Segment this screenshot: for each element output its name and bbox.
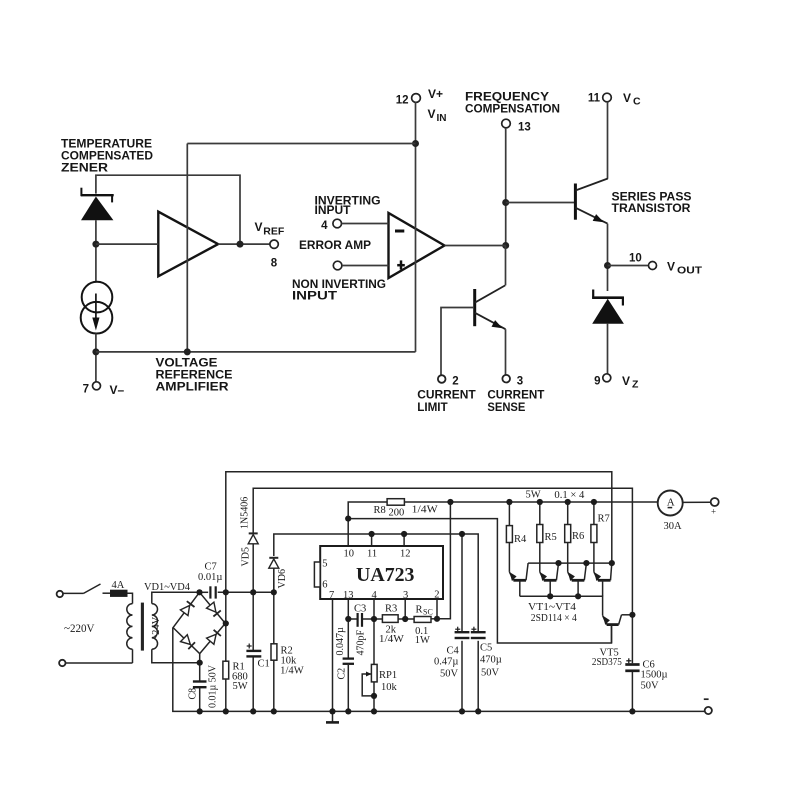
ammeter PA 30A (658, 491, 683, 533)
svg-text:30A: 30A (664, 521, 683, 532)
current source I1 (81, 282, 113, 334)
svg-text:4: 4 (372, 590, 378, 601)
wire VC down to collector (607, 102, 609, 179)
terminal pin 10 VOUT (608, 253, 703, 277)
wire RP1 bottom (373, 682, 375, 712)
resistor Rsc 0.1 1W (414, 605, 433, 646)
resistor R6 (565, 525, 585, 543)
terminal output minus (704, 699, 712, 714)
wire R5 top stub (539, 502, 541, 525)
diode VD6 (269, 558, 279, 593)
resistor R4 (506, 526, 527, 545)
wire C6 bottom (631, 672, 633, 711)
wire C3 to pin 4 node (363, 618, 382, 620)
svg-text:VT1~VT4: VT1~VT4 (528, 602, 577, 613)
svg-text:+: + (711, 507, 716, 517)
wire emitter current limit to pin 3 (505, 329, 507, 375)
wire R5 to VT2 emitter (539, 543, 541, 572)
resistor R5 (537, 525, 557, 544)
node V- rail left (92, 348, 99, 355)
svg-text:VD5: VD5 (241, 547, 252, 566)
resistor R8 200 (374, 499, 438, 519)
wire emitter down to VOUT node (607, 224, 609, 291)
wire pin 11 stub (371, 534, 373, 546)
wire C1 vertical top (252, 592, 254, 650)
svg-text:SC: SC (423, 608, 433, 617)
svg-text:INPUT: INPUT (292, 289, 338, 303)
wire C2 vertical (347, 619, 349, 658)
wire error amp output (445, 245, 506, 247)
node ground rail C8 (197, 708, 203, 714)
wire vertical through amplifier (186, 144, 188, 352)
core (141, 603, 144, 651)
wire base rail VT1-VT4 (520, 596, 603, 615)
node raw plus VD6 (271, 589, 277, 595)
terminal pin 4 inverting input (321, 219, 388, 232)
svg-text:C7: C7 (205, 562, 217, 573)
resistor R1 680 5W (223, 661, 248, 692)
wire VD5 rail2 (253, 488, 632, 615)
transistor VT3 (568, 563, 587, 596)
node ground rail R2 (271, 708, 277, 714)
node rail533 pin12 (401, 531, 407, 537)
svg-text:AMPLIFIER: AMPLIFIER (156, 380, 229, 394)
svg-text:C3: C3 (354, 603, 366, 614)
bridge diode bottom-left (181, 635, 196, 649)
node ground rail C5 (475, 708, 481, 714)
switch S1 blade (84, 584, 101, 593)
wire secondary top lead (152, 592, 200, 603)
label FREQUENCY COMPENSATION (465, 90, 560, 116)
svg-text:0.01µ: 0.01µ (198, 572, 222, 583)
node ground rail C4 (459, 708, 465, 714)
capacitor C2 0.047u (343, 659, 354, 664)
svg-text:VD6: VD6 (277, 569, 288, 588)
wire pin 2 stub (436, 599, 438, 619)
svg-text:2SD114 × 4: 2SD114 × 4 (531, 613, 578, 624)
node ground rail C1 (250, 708, 256, 714)
wire bridge plus vertical through R1 (225, 592, 227, 661)
node VREF (237, 241, 244, 248)
resistor R2 10k (271, 644, 304, 677)
svg-text:R: R (416, 605, 423, 616)
capacitor C1 electrolytic (246, 644, 269, 670)
svg-text:470pF: 470pF (356, 630, 367, 656)
svg-text:10: 10 (344, 548, 355, 559)
node bridge right vertex (223, 620, 229, 626)
wire current source to V- rail (95, 334, 97, 383)
wire pin 10 line (348, 519, 611, 643)
svg-text:SENSE: SENSE (487, 400, 525, 414)
resistor R3 2k (379, 604, 404, 646)
node error amp output (502, 242, 509, 249)
svg-text:50V: 50V (641, 681, 660, 692)
zener diode VZ (592, 290, 624, 324)
svg-text:50V: 50V (481, 668, 500, 679)
svg-text:3: 3 (517, 375, 523, 387)
svg-text:12: 12 (396, 95, 409, 107)
bridge diode top-left (180, 601, 194, 615)
error amp U2 triangle (389, 213, 445, 278)
terminal pin 8 VREF (255, 220, 285, 270)
wire zener VZ to pin 9 (607, 324, 609, 375)
svg-text:9: 9 (594, 376, 600, 388)
voltage reference amplifier U1 triangle (158, 212, 218, 277)
wire C4 bottom (461, 641, 463, 712)
wire R6 to VT3 emitter (567, 543, 569, 572)
svg-text:RP1: RP1 (379, 670, 397, 681)
node R8 pin10 (345, 516, 351, 522)
svg-text:V: V (255, 220, 263, 234)
svg-text:C4: C4 (447, 646, 460, 657)
label INVERTING INPUT (315, 194, 381, 218)
svg-text:V+: V+ (428, 87, 443, 101)
node VT5 collector rail2 (629, 612, 635, 618)
wire pin 7 ground (332, 599, 334, 711)
wire R2 bottom (273, 660, 275, 711)
svg-text:A: A (667, 496, 675, 508)
svg-text:IN: IN (437, 113, 447, 124)
wire VD6 to IC supply rail (273, 568, 275, 593)
wire pin 13 stub (347, 599, 349, 619)
svg-text:R3: R3 (385, 604, 397, 615)
svg-text:INPUT: INPUT (315, 203, 352, 217)
wire C8 bottom (199, 688, 201, 711)
terminal non-inverting input (333, 261, 388, 270)
wire rail3 output rail right of R8 (405, 501, 658, 503)
junction dots bottom circuit (196, 499, 635, 715)
label CURRENT SENSE (487, 388, 545, 415)
wire fuse to transformer (127, 593, 133, 603)
wire zener to current source (95, 220, 97, 282)
svg-text:1/4W: 1/4W (379, 634, 404, 645)
wire pin 13 to C3 (348, 618, 356, 620)
node rail3 R7 (591, 499, 597, 505)
node pin13 C3 (345, 616, 351, 622)
node ground rail C2 (345, 708, 351, 714)
wire R7 to VT4 emitter (593, 543, 595, 572)
wire C5 bottom (477, 641, 479, 712)
svg-text:13: 13 (518, 122, 531, 134)
svg-text:5: 5 (322, 559, 327, 570)
wire R1 bottom (225, 679, 227, 711)
terminal pin 3 current sense (502, 375, 523, 387)
svg-text:R8: R8 (374, 505, 386, 516)
node raw plus C1 (250, 589, 256, 595)
node freq comp to base (502, 199, 509, 206)
wire AC line top with switch (63, 592, 84, 594)
capacitor C6 1500u (625, 658, 667, 691)
svg-text:TRANSISTOR: TRANSISTOR (612, 201, 691, 215)
transistor VT1 (509, 563, 528, 596)
node base rail VT3 (575, 593, 581, 599)
capacitor C7 (198, 562, 222, 599)
svg-text:0.01µ 50V: 0.01µ 50V (208, 664, 219, 708)
error amp minus sign (395, 230, 404, 233)
svg-text:V: V (623, 91, 631, 105)
svg-text:REF: REF (263, 226, 285, 238)
svg-text:C5: C5 (480, 643, 492, 654)
svg-text:COMPENSATION: COMPENSATION (465, 102, 560, 116)
node bridge top (196, 589, 202, 595)
diode VD5 1N5406 (248, 533, 258, 592)
svg-text:2: 2 (452, 375, 458, 387)
wire R6 top stub (567, 502, 569, 525)
wire R3 to pin 3 node (398, 618, 415, 620)
svg-text:5W: 5W (526, 490, 541, 501)
node secondary to bridge bottom (197, 660, 203, 666)
zener diode temperature compensated (81, 188, 114, 221)
wire V+ horizontal (187, 143, 415, 145)
wire bottom ground rail (173, 628, 705, 712)
wire V+ vertical pin12 down (415, 102, 417, 352)
node ground rail pin7 (329, 708, 335, 714)
ground symbol (326, 711, 339, 722)
secondary winding (152, 604, 158, 650)
bridge diode bottom-right (207, 630, 221, 645)
svg-text:4: 4 (321, 220, 328, 232)
svg-text:1W: 1W (415, 635, 430, 646)
svg-text:0.1 × 4: 0.1 × 4 (554, 490, 585, 501)
wire V- bottom rail (96, 351, 416, 353)
terminal pin 12 V+ (396, 87, 447, 124)
transistor VT2 (540, 563, 559, 596)
label VOLTAGE REFERENCE AMPLIFIER (156, 356, 233, 394)
svg-text:10k: 10k (381, 682, 398, 693)
svg-text:C: C (633, 96, 641, 108)
wire R4 top stub (508, 502, 510, 526)
wire RP1 top (373, 619, 375, 664)
wire C6 top (631, 615, 633, 663)
transistor VT4 (594, 563, 612, 596)
transistor Q2 current limit (475, 246, 506, 330)
label TEMPERATURE COMPENSATED ZENER (61, 137, 153, 175)
primary winding (127, 604, 133, 650)
svg-text:R4: R4 (514, 534, 527, 545)
terminal pin 2 current limit (438, 375, 459, 387)
bridge diode top-right (207, 602, 221, 616)
node rail533 C4 (459, 531, 465, 537)
node pin3 R3 Rsc (402, 616, 408, 622)
svg-text:~220V: ~220V (64, 623, 95, 635)
node rail533 pin11 (369, 531, 375, 537)
resistor R7 (591, 514, 610, 543)
svg-text:200: 200 (389, 508, 405, 519)
node V- rail mid (184, 348, 191, 355)
node RP1 wiper (371, 693, 377, 699)
wire pin13 down (505, 128, 507, 246)
wire collector rail VT1-VT4 (528, 562, 612, 564)
svg-text:V: V (667, 260, 675, 274)
node rail3 pin2 riser (447, 499, 453, 505)
node rail3 R6 (565, 499, 571, 505)
wire base of series pass (506, 202, 574, 204)
svg-text:4A: 4A (112, 580, 125, 591)
svg-text:2: 2 (434, 589, 439, 600)
svg-text:1/4W: 1/4W (412, 505, 438, 516)
capacitor C8 (193, 682, 207, 688)
svg-text:1500µ: 1500µ (641, 670, 668, 681)
wire transformer primary bottom lead (132, 649, 134, 663)
svg-text:0.47µ: 0.47µ (434, 657, 458, 668)
svg-text:0.047µ: 0.047µ (335, 627, 346, 656)
terminal pin 9 VZ (594, 374, 639, 391)
terminal pin 13 frequency compensation (502, 119, 531, 133)
svg-text:7: 7 (83, 384, 89, 396)
wire rail3 output rail left of R8 (348, 502, 387, 519)
node ground rail RP1 (371, 708, 377, 714)
svg-text:~24V: ~24V (151, 616, 162, 640)
node collector rail VT3 (583, 560, 589, 566)
svg-text:LIMIT: LIMIT (417, 400, 448, 414)
svg-text:V–: V– (110, 383, 125, 397)
wire R4 to VT1 emitter (508, 543, 510, 572)
node rail3 R4 (506, 499, 512, 505)
svg-text:2SD375: 2SD375 (592, 657, 622, 668)
svg-text:Z: Z (632, 379, 639, 391)
svg-text:5W: 5W (233, 681, 248, 692)
wire pin 10 stub (347, 519, 349, 546)
svg-text:V: V (428, 107, 436, 121)
wire secondary bottom lead (152, 649, 200, 662)
svg-text:13: 13 (343, 590, 354, 601)
wire C2 bottom (347, 665, 349, 711)
svg-text:OUT: OUT (677, 265, 703, 277)
svg-text:ERROR AMP: ERROR AMP (299, 238, 371, 252)
wire switch to fuse (103, 592, 111, 594)
terminal output plus (711, 498, 719, 517)
wire feedback top (96, 175, 240, 244)
bridge rectifier VD1-VD4 (173, 592, 225, 653)
svg-text:R7: R7 (598, 514, 610, 525)
wire VT5 collector to rail2 (622, 614, 633, 616)
wire Rsc to pin 2 node (431, 618, 437, 620)
node pin2 Rsc (434, 616, 440, 622)
node collector rail right (609, 560, 615, 566)
node zener output (92, 241, 99, 248)
error amp plus sign (397, 260, 405, 269)
svg-text:V: V (622, 374, 630, 388)
wire pin 12 stub (403, 534, 405, 546)
svg-text:R6: R6 (572, 531, 584, 542)
label CURRENT LIMIT (417, 388, 476, 415)
terminal pin 11 VC (588, 91, 641, 108)
node base rail VT2 (547, 593, 553, 599)
svg-text:1N5406: 1N5406 (240, 497, 251, 529)
wire C4 vertical (461, 534, 463, 631)
capacitor C5 470u (471, 627, 502, 679)
svg-text:470µ: 470µ (480, 655, 502, 666)
wire R2 vertical top (273, 592, 275, 644)
svg-text:3: 3 (403, 590, 408, 601)
transistor Q1 series pass (575, 179, 607, 224)
svg-text:8: 8 (271, 258, 278, 270)
wire ammeter to plus terminal (683, 501, 711, 503)
capacitor C4 0.47u (434, 627, 469, 680)
wire zener node to amplifier input (96, 243, 158, 245)
wire bridge to C7 left (200, 591, 209, 593)
node ground rail R1 (223, 708, 229, 714)
wire AC line bottom (65, 662, 132, 664)
node VOUT (604, 262, 611, 269)
svg-text:10: 10 (629, 253, 642, 265)
svg-text:11: 11 (367, 548, 377, 559)
label NON INVERTING INPUT (292, 277, 386, 303)
wire VREF output (218, 243, 271, 245)
node pin4 C3 R3 (371, 616, 377, 622)
wire raw V+ top rail (226, 472, 612, 592)
fuse FU 4A (111, 580, 128, 596)
node rail3 R5 (537, 499, 543, 505)
svg-text:C8: C8 (187, 688, 198, 700)
wire bridge bottom vertical (199, 654, 201, 681)
node collector rail VT2 (555, 560, 561, 566)
svg-text:7: 7 (329, 590, 334, 601)
terminal AC input bottom (59, 660, 65, 666)
transistor VT5 (603, 615, 622, 643)
terminal pin 7 V- (83, 382, 125, 397)
node junction V+ (412, 140, 419, 147)
IC U1 UA723 box (314, 546, 443, 601)
wire pin 3 stub (404, 599, 406, 619)
wire pin 4 stub (373, 599, 375, 619)
transformer T1 (127, 603, 158, 651)
wire pin2 net to rail3 (437, 502, 450, 619)
label SERIES PASS TRANSISTOR (612, 190, 692, 216)
wire RP1 wiper loop (362, 674, 374, 696)
wire VD6 top rail pins 11 12 (274, 534, 478, 631)
svg-text:ZENER: ZENER (61, 161, 108, 175)
terminal AC input top (57, 591, 63, 597)
svg-text:C2: C2 (337, 668, 348, 680)
svg-text:R5: R5 (545, 532, 557, 543)
wire base current limit (441, 308, 474, 376)
svg-text:1/4W: 1/4W (280, 666, 304, 677)
wire R7 top stub (593, 502, 595, 525)
potentiometer RP1 10k (366, 664, 398, 693)
svg-text:VD1~VD4: VD1~VD4 (144, 582, 191, 593)
svg-text:50V: 50V (440, 669, 459, 680)
svg-text:11: 11 (588, 93, 601, 105)
svg-text:12: 12 (400, 548, 411, 559)
wire C1 bottom (252, 657, 254, 711)
node raw plus C7 (223, 589, 229, 595)
wire C7 right to VD6 node (218, 591, 274, 593)
svg-text:UA723: UA723 (356, 564, 415, 586)
capacitor C3 470pF (354, 603, 366, 627)
svg-text:C1: C1 (258, 659, 270, 670)
svg-text:6: 6 (322, 580, 327, 591)
node ground rail C6 (629, 708, 635, 714)
